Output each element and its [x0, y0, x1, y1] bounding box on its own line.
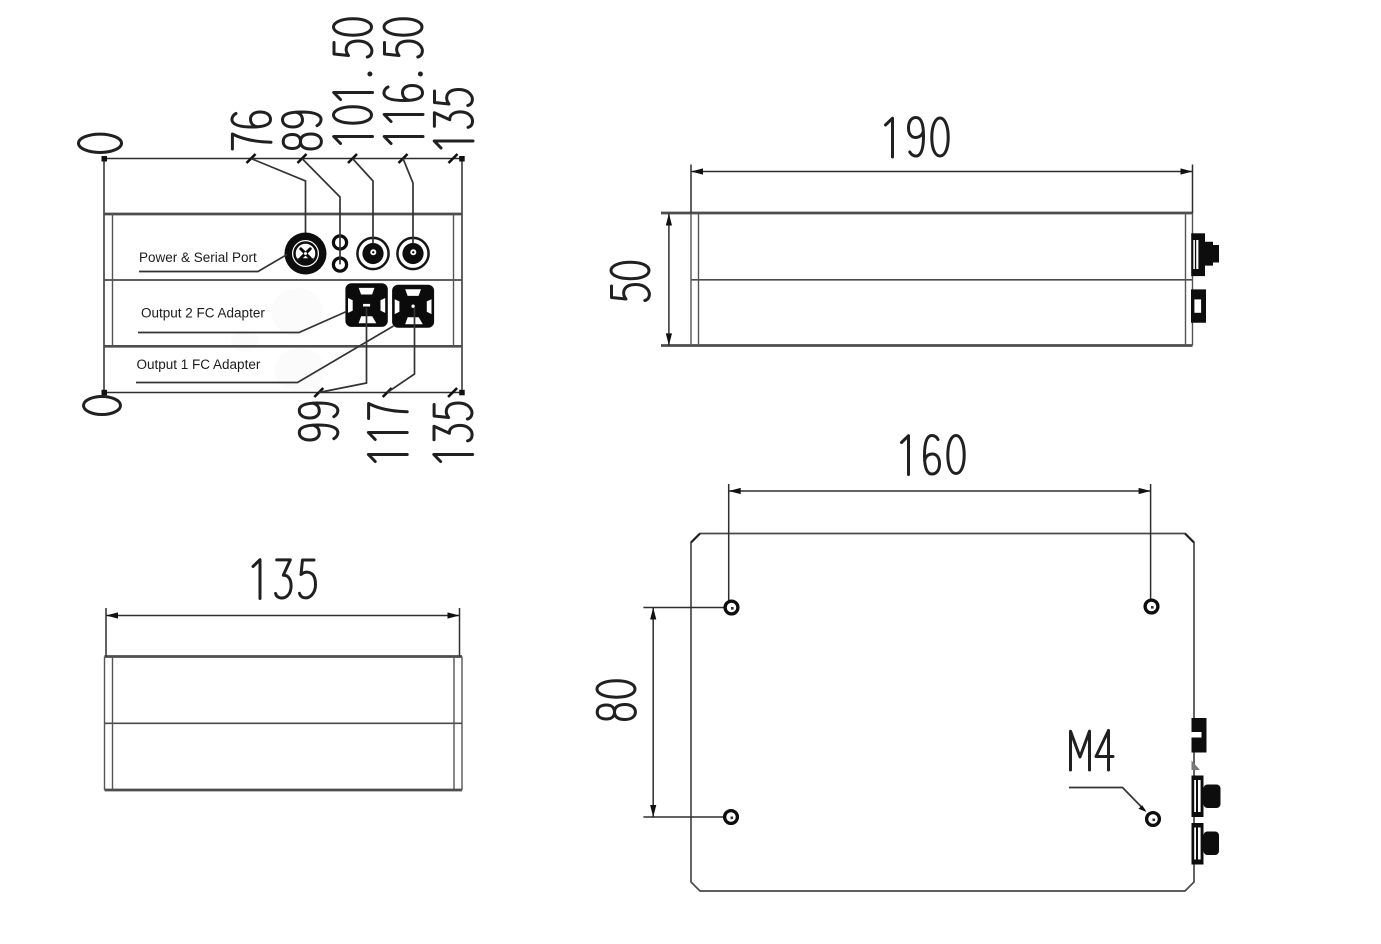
label 89 (rotated): [283, 112, 322, 149]
side view left inner edge: [698, 213, 700, 346]
corner dots: [102, 156, 465, 395]
arrowheads 160: [729, 488, 741, 494]
extension lines 160: [729, 484, 1151, 601]
mounting hole M4 (bottom-right): [1147, 813, 1160, 826]
svg-text:Output 1 FC Adapter: Output 1 FC Adapter: [137, 357, 261, 372]
bottom view side connector bottom: [1192, 823, 1220, 865]
label 135: [253, 560, 316, 599]
rear view outline: [105, 657, 463, 791]
output connector circle 1: [357, 238, 388, 269]
arrowheads 190: [691, 168, 703, 174]
bottom view side connector middle: [1192, 776, 1221, 818]
rear view middle line: [105, 722, 463, 724]
watermark blob: [231, 288, 325, 392]
label 101.50 (rotated): [334, 19, 373, 144]
extension lines 80: [643, 608, 724, 818]
leader Output 2 label: [138, 312, 347, 333]
bottom view side connector top: [1192, 718, 1207, 753]
extension lines 135: [106, 608, 460, 657]
oblique ticks bottom dimension: [314, 388, 457, 397]
power connector body: [285, 233, 327, 275]
svg-text:Power & Serial Port: Power & Serial Port: [139, 250, 257, 265]
svg-text:Output 2 FC Adapter: Output 2 FC Adapter: [141, 306, 265, 321]
dimension line 50: [668, 214, 670, 346]
mounting hole top-left: [725, 601, 738, 614]
front view bottom dimension line: [104, 392, 462, 394]
side view middle line: [691, 279, 1193, 281]
front view right extension line: [461, 159, 463, 393]
side power connector (right edge upper): [1191, 233, 1219, 276]
dimension line 80: [652, 608, 654, 818]
leader 117 from FC adapter 2: [387, 308, 414, 393]
oblique ticks top dimension: [247, 154, 458, 163]
small indicator circle lower: [333, 258, 346, 271]
extension lines 190: [691, 165, 1193, 214]
chamfer accents: [691, 534, 1194, 543]
arrowheads 50: [666, 214, 672, 226]
small indicator circle upper: [333, 236, 346, 249]
label 160: [902, 435, 965, 474]
label 76 (rotated): [232, 112, 271, 149]
label 116.50 (rotated): [384, 19, 423, 144]
leader 76 to power connector: [251, 159, 306, 234]
label 0 (bottom-left, rotated): [84, 397, 121, 415]
rear view inner verticals: [113, 657, 455, 791]
arrowheads 80: [650, 608, 656, 620]
label 190: [886, 118, 949, 158]
label 135 (bottom, rotated): [434, 403, 473, 462]
side view right edge: [1192, 213, 1194, 346]
label 50 (rotated): [611, 262, 649, 300]
side view bottom edge: [661, 344, 1193, 347]
side view left edge: [690, 213, 692, 346]
label 99 (rotated): [299, 403, 338, 440]
arrowhead M4 leader: [1139, 805, 1147, 812]
panel inner right vertical: [453, 214, 455, 346]
dimension line 190: [691, 171, 1193, 173]
mounting hole bottom-left: [725, 811, 738, 824]
output connector circle 2: [397, 238, 428, 269]
front view left extension line: [103, 159, 105, 393]
leader 101.50: [353, 159, 374, 244]
panel middle split line: [104, 279, 462, 281]
side view right inner edge: [1185, 213, 1187, 346]
dimension line 135: [106, 615, 460, 617]
panel inner left vertical: [112, 214, 114, 346]
side view top edge: [661, 212, 1193, 215]
bottom view outline (chamfered): [691, 534, 1194, 892]
FC adapter 2 (right): [392, 285, 434, 328]
leader Power label: [139, 255, 287, 272]
label 117 (rotated): [368, 404, 407, 462]
dimension line 160: [729, 490, 1151, 492]
side serial connector (right edge lower): [1191, 289, 1206, 322]
FC adapter 1 (left): [345, 283, 387, 327]
label 0 (top-left, rotated): [79, 134, 122, 152]
label 80 (rotated): [597, 681, 635, 720]
front view top dimension line: [104, 158, 462, 160]
arrowheads 135: [106, 612, 118, 618]
panel bottom edge: [104, 345, 462, 348]
leader 116.50: [403, 159, 413, 244]
label 135 (top, rotated): [434, 90, 473, 149]
panel top edge: [104, 213, 462, 216]
small wedge on edge: [1192, 761, 1201, 771]
leader Output 1 label: [136, 326, 394, 383]
leader 89 through indicator circles: [302, 159, 340, 265]
leader 99 from FC adapter 1: [319, 308, 367, 393]
label M4: [1071, 731, 1114, 771]
mounting hole top-right: [1145, 600, 1158, 613]
leader M4: [1069, 788, 1145, 811]
